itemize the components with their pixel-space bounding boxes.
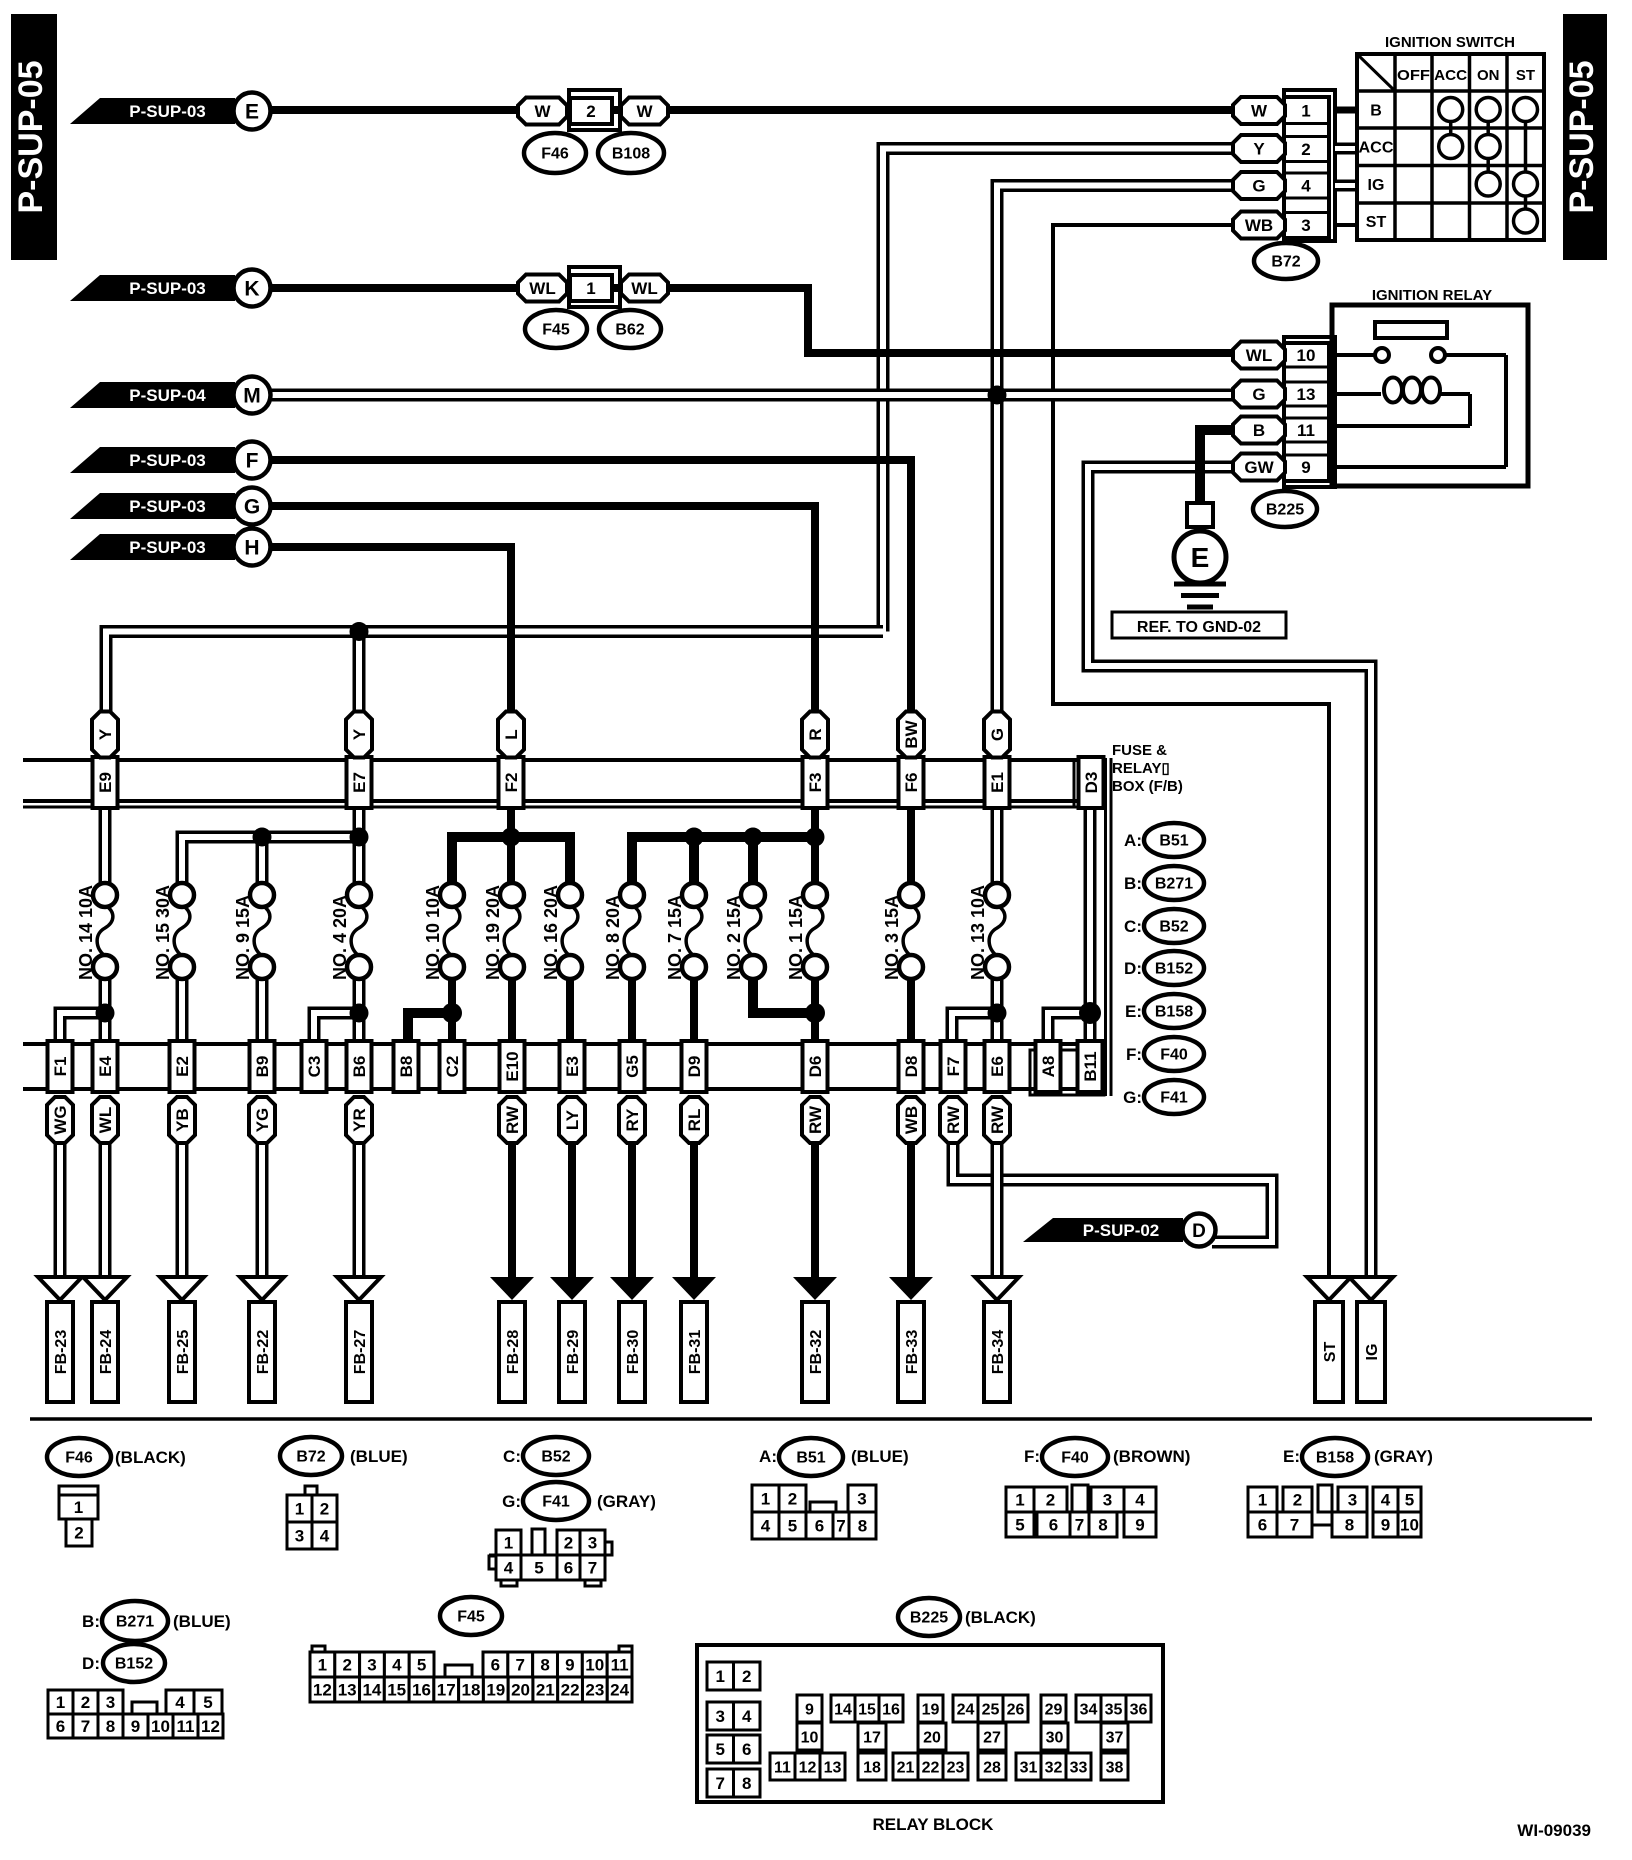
- svg-text:(BROWN): (BROWN): [1113, 1447, 1190, 1466]
- svg-text:1: 1: [504, 1533, 513, 1552]
- svg-text:B:: B:: [82, 1612, 100, 1631]
- svg-text:FB-33: FB-33: [904, 1330, 921, 1375]
- svg-text:1: 1: [74, 1498, 83, 1517]
- svg-text:YG: YG: [253, 1108, 272, 1133]
- svg-text:FB-27: FB-27: [352, 1330, 369, 1375]
- svg-text:FB-30: FB-30: [625, 1330, 642, 1375]
- svg-text:G:: G:: [1123, 1088, 1142, 1107]
- svg-text:(BLUE): (BLUE): [350, 1447, 408, 1466]
- svg-text:21: 21: [897, 1759, 915, 1776]
- svg-text:4: 4: [1381, 1490, 1391, 1509]
- svg-text:ST: ST: [1516, 67, 1535, 84]
- svg-text:K: K: [244, 278, 259, 301]
- svg-text:NO. 14 10A: NO. 14 10A: [76, 885, 96, 980]
- svg-text:M: M: [243, 385, 261, 408]
- svg-text:16: 16: [882, 1701, 900, 1718]
- svg-text:1: 1: [716, 1667, 725, 1686]
- svg-text:Y: Y: [1253, 140, 1265, 159]
- svg-text:F40: F40: [1160, 1047, 1188, 1064]
- svg-text:B225: B225: [910, 1610, 948, 1627]
- svg-text:3: 3: [716, 1707, 725, 1726]
- svg-text:YB: YB: [173, 1108, 192, 1132]
- svg-text:14: 14: [362, 1680, 381, 1699]
- svg-text:19: 19: [922, 1701, 940, 1718]
- svg-text:F:: F:: [1126, 1045, 1142, 1064]
- svg-text:B52: B52: [1159, 919, 1188, 936]
- svg-text:F46: F46: [541, 146, 569, 163]
- svg-text:B6: B6: [350, 1056, 369, 1078]
- svg-text:NO. 7 15A: NO. 7 15A: [665, 895, 685, 980]
- svg-text:7: 7: [81, 1717, 90, 1736]
- svg-text:IGNITION RELAY: IGNITION RELAY: [1372, 287, 1492, 304]
- svg-text:7: 7: [1075, 1515, 1084, 1534]
- svg-text:RW: RW: [806, 1105, 825, 1134]
- svg-text:R: R: [806, 728, 825, 740]
- svg-text:11: 11: [611, 1655, 629, 1674]
- svg-text:LY: LY: [563, 1109, 582, 1130]
- svg-text:10: 10: [1400, 1515, 1419, 1534]
- svg-text:1: 1: [1258, 1490, 1267, 1509]
- svg-text:6: 6: [491, 1655, 500, 1674]
- svg-text:NO. 9 15A: NO. 9 15A: [233, 895, 253, 980]
- svg-text:(GRAY): (GRAY): [1374, 1447, 1433, 1466]
- svg-text:B152: B152: [1155, 961, 1193, 978]
- svg-text:7: 7: [716, 1774, 725, 1793]
- svg-text:24: 24: [957, 1701, 975, 1718]
- svg-text:F3: F3: [806, 773, 825, 793]
- svg-text:B152: B152: [115, 1656, 153, 1673]
- svg-text:F41: F41: [1160, 1090, 1188, 1107]
- svg-text:B: B: [1253, 421, 1265, 440]
- svg-text:RW: RW: [503, 1105, 522, 1134]
- svg-text:RL: RL: [685, 1109, 704, 1132]
- svg-text:2: 2: [342, 1655, 351, 1674]
- svg-text:E: E: [245, 101, 259, 124]
- svg-text:38: 38: [1106, 1759, 1124, 1776]
- svg-text:B158: B158: [1155, 1004, 1193, 1021]
- svg-text:Y: Y: [96, 728, 115, 740]
- svg-text:4: 4: [1301, 177, 1311, 196]
- svg-text:D8: D8: [902, 1056, 921, 1078]
- svg-text:18: 18: [462, 1680, 481, 1699]
- svg-text:G: G: [988, 728, 1007, 741]
- svg-text:4: 4: [175, 1693, 185, 1712]
- svg-text:E:: E:: [1283, 1447, 1300, 1466]
- svg-text:Y: Y: [350, 728, 369, 740]
- svg-text:B8: B8: [397, 1056, 416, 1078]
- svg-text:2: 2: [1293, 1490, 1302, 1509]
- svg-text:2: 2: [81, 1693, 90, 1712]
- svg-text:2: 2: [1046, 1490, 1055, 1509]
- svg-text:RW: RW: [988, 1105, 1007, 1134]
- svg-text:(BLACK): (BLACK): [115, 1448, 186, 1467]
- svg-text:31: 31: [1020, 1759, 1038, 1776]
- svg-text:B: B: [1370, 103, 1382, 120]
- svg-text:1: 1: [1015, 1490, 1024, 1509]
- svg-text:20: 20: [511, 1680, 530, 1699]
- svg-text:FUSE &: FUSE &: [1112, 742, 1167, 759]
- svg-text:P-SUP-03: P-SUP-03: [129, 538, 206, 557]
- svg-text:6: 6: [1258, 1515, 1267, 1534]
- svg-text:6: 6: [564, 1558, 573, 1577]
- svg-text:P-SUP-03: P-SUP-03: [129, 497, 206, 516]
- svg-text:24: 24: [610, 1680, 629, 1699]
- svg-text:C2: C2: [443, 1056, 462, 1078]
- svg-text:WL: WL: [1246, 346, 1272, 365]
- svg-text:FB-31: FB-31: [687, 1330, 704, 1375]
- svg-text:B72: B72: [1271, 254, 1300, 271]
- svg-text:13: 13: [1297, 385, 1316, 404]
- svg-text:P-SUP-03: P-SUP-03: [129, 451, 206, 470]
- svg-text:8: 8: [742, 1774, 751, 1793]
- svg-text:F7: F7: [944, 1057, 963, 1077]
- svg-text:P-SUP-03: P-SUP-03: [129, 279, 206, 298]
- svg-text:NO. 16 20A: NO. 16 20A: [541, 885, 561, 980]
- svg-text:D6: D6: [806, 1056, 825, 1078]
- svg-text:1: 1: [761, 1489, 770, 1508]
- svg-text:WI-09039: WI-09039: [1517, 1821, 1591, 1840]
- svg-text:22: 22: [561, 1680, 580, 1699]
- svg-text:21: 21: [536, 1680, 555, 1699]
- svg-text:G: G: [1252, 177, 1265, 196]
- svg-text:8: 8: [1345, 1515, 1354, 1534]
- svg-text:C:: C:: [1124, 917, 1142, 936]
- svg-text:5: 5: [203, 1693, 212, 1712]
- svg-text:D3: D3: [1082, 772, 1101, 794]
- svg-text:5: 5: [788, 1516, 797, 1535]
- svg-text:4: 4: [504, 1558, 514, 1577]
- svg-text:A:: A:: [1124, 831, 1142, 850]
- svg-text:9: 9: [131, 1717, 140, 1736]
- svg-text:YR: YR: [350, 1108, 369, 1132]
- svg-text:2: 2: [74, 1523, 83, 1542]
- svg-text:G:: G:: [502, 1492, 521, 1511]
- svg-text:E4: E4: [96, 1056, 115, 1077]
- svg-text:13: 13: [338, 1680, 357, 1699]
- svg-text:E2: E2: [173, 1056, 192, 1077]
- svg-text:23: 23: [585, 1680, 604, 1699]
- svg-text:IGNITION SWITCH: IGNITION SWITCH: [1385, 34, 1515, 51]
- svg-text:2: 2: [742, 1667, 751, 1686]
- svg-text:7: 7: [1290, 1515, 1299, 1534]
- svg-text:E6: E6: [988, 1056, 1007, 1077]
- svg-text:1: 1: [1301, 102, 1310, 121]
- svg-text:11: 11: [774, 1759, 791, 1776]
- svg-text:E: E: [1191, 542, 1210, 573]
- svg-text:9: 9: [1135, 1515, 1144, 1534]
- svg-text:P-SUP-03: P-SUP-03: [129, 102, 206, 121]
- svg-text:10: 10: [801, 1729, 819, 1746]
- svg-text:1: 1: [56, 1693, 65, 1712]
- svg-text:3: 3: [367, 1655, 376, 1674]
- svg-text:C:: C:: [503, 1447, 521, 1466]
- svg-text:D: D: [1192, 1221, 1206, 1242]
- svg-text:FB-29: FB-29: [565, 1330, 582, 1375]
- svg-text:NO. 2 15A: NO. 2 15A: [724, 895, 744, 980]
- svg-text:L: L: [502, 729, 521, 739]
- svg-text:10: 10: [151, 1717, 170, 1736]
- svg-text:GW: GW: [1244, 458, 1274, 477]
- svg-text:10: 10: [1297, 346, 1316, 365]
- svg-text:12: 12: [313, 1680, 332, 1699]
- svg-text:5: 5: [1405, 1490, 1414, 1509]
- svg-text:4: 4: [320, 1526, 330, 1545]
- svg-text:2: 2: [1301, 140, 1310, 159]
- svg-text:15: 15: [387, 1680, 406, 1699]
- svg-text:36: 36: [1130, 1701, 1148, 1718]
- svg-text:NO. 3 15A: NO. 3 15A: [882, 895, 902, 980]
- svg-text:12: 12: [799, 1759, 817, 1776]
- svg-text:W: W: [1251, 102, 1268, 121]
- svg-text:P-SUP-05: P-SUP-05: [12, 60, 50, 213]
- svg-text:FB-24: FB-24: [98, 1330, 115, 1375]
- svg-text:2: 2: [564, 1533, 573, 1552]
- svg-text:RW: RW: [944, 1105, 963, 1134]
- svg-text:1: 1: [318, 1655, 327, 1674]
- svg-text:3: 3: [295, 1526, 304, 1545]
- svg-text:4: 4: [1135, 1490, 1145, 1509]
- svg-text:WG: WG: [51, 1105, 70, 1134]
- svg-text:12: 12: [201, 1717, 220, 1736]
- svg-text:FB-32: FB-32: [808, 1330, 825, 1375]
- svg-text:NO. 1 15A: NO. 1 15A: [786, 895, 806, 980]
- svg-text:3: 3: [106, 1693, 115, 1712]
- svg-text:E:: E:: [1125, 1002, 1142, 1021]
- svg-text:ST: ST: [1322, 1342, 1339, 1363]
- svg-text:E7: E7: [350, 772, 369, 793]
- svg-text:F40: F40: [1061, 1450, 1089, 1467]
- svg-text:4: 4: [761, 1516, 771, 1535]
- svg-text:3: 3: [588, 1533, 597, 1552]
- svg-text:F45: F45: [542, 322, 570, 339]
- svg-text:B158: B158: [1316, 1450, 1354, 1467]
- svg-text:RELAY▯: RELAY▯: [1112, 760, 1170, 777]
- svg-text:9: 9: [805, 1701, 814, 1718]
- svg-text:W: W: [534, 102, 551, 121]
- svg-text:5: 5: [1015, 1515, 1024, 1534]
- svg-text:F1: F1: [51, 1057, 70, 1077]
- svg-text:B271: B271: [1155, 876, 1193, 893]
- svg-text:IG: IG: [1364, 1344, 1381, 1361]
- svg-text:5: 5: [417, 1655, 426, 1674]
- svg-text:IG: IG: [1368, 177, 1385, 194]
- svg-text:32: 32: [1045, 1759, 1063, 1776]
- svg-text:FB-28: FB-28: [505, 1330, 522, 1375]
- svg-text:B51: B51: [1159, 833, 1188, 850]
- svg-text:11: 11: [177, 1717, 195, 1736]
- svg-text:6: 6: [56, 1717, 65, 1736]
- svg-text:35: 35: [1105, 1701, 1123, 1718]
- svg-text:(GRAY): (GRAY): [597, 1492, 656, 1511]
- svg-text:G: G: [1252, 385, 1265, 404]
- svg-text:1: 1: [295, 1499, 304, 1518]
- svg-text:W: W: [636, 102, 653, 121]
- svg-text:6: 6: [742, 1740, 751, 1759]
- svg-text:9: 9: [1381, 1515, 1390, 1534]
- svg-text:P-SUP-05: P-SUP-05: [1563, 60, 1601, 213]
- svg-text:1: 1: [586, 279, 595, 298]
- svg-text:13: 13: [824, 1759, 842, 1776]
- svg-text:11: 11: [1297, 421, 1315, 440]
- svg-text:OFF: OFF: [1397, 67, 1430, 84]
- svg-text:14: 14: [834, 1701, 852, 1718]
- svg-text:7: 7: [516, 1655, 525, 1674]
- svg-text:16: 16: [412, 1680, 431, 1699]
- svg-text:4: 4: [392, 1655, 402, 1674]
- svg-text:17: 17: [437, 1680, 456, 1699]
- svg-text:B108: B108: [612, 146, 650, 163]
- svg-text:19: 19: [486, 1680, 505, 1699]
- svg-text:8: 8: [858, 1516, 867, 1535]
- svg-text:E3: E3: [563, 1056, 582, 1077]
- svg-text:F46: F46: [65, 1450, 93, 1467]
- svg-text:WL: WL: [529, 279, 555, 298]
- svg-text:8: 8: [1098, 1515, 1107, 1534]
- svg-text:3: 3: [1348, 1490, 1357, 1509]
- svg-text:(BLUE): (BLUE): [173, 1612, 231, 1631]
- svg-text:RY: RY: [623, 1108, 642, 1132]
- svg-text:17: 17: [863, 1729, 881, 1746]
- svg-text:15: 15: [858, 1701, 876, 1718]
- svg-text:34: 34: [1080, 1701, 1098, 1718]
- svg-text:2: 2: [320, 1499, 329, 1518]
- svg-text:E9: E9: [96, 772, 115, 793]
- svg-text:6: 6: [1049, 1515, 1058, 1534]
- svg-text:B52: B52: [541, 1449, 570, 1466]
- svg-text:G: G: [244, 496, 260, 519]
- svg-text:7: 7: [588, 1558, 597, 1577]
- svg-text:FB-34: FB-34: [990, 1330, 1007, 1375]
- svg-text:P-SUP-02: P-SUP-02: [1083, 1221, 1160, 1240]
- svg-text:(BLACK): (BLACK): [965, 1608, 1036, 1627]
- svg-text:B72: B72: [296, 1449, 325, 1466]
- svg-text:26: 26: [1007, 1701, 1025, 1718]
- svg-text:A:: A:: [759, 1447, 777, 1466]
- svg-text:B51: B51: [796, 1450, 825, 1467]
- svg-text:B271: B271: [116, 1614, 154, 1631]
- svg-text:BOX (F/B): BOX (F/B): [1112, 778, 1183, 795]
- svg-text:37: 37: [1106, 1729, 1124, 1746]
- svg-text:WB: WB: [902, 1106, 921, 1134]
- svg-text:F41: F41: [542, 1494, 570, 1511]
- svg-text:8: 8: [106, 1717, 115, 1736]
- svg-text:NO. 8 20A: NO. 8 20A: [603, 895, 623, 980]
- svg-text:F45: F45: [457, 1609, 485, 1626]
- svg-text:(BLUE): (BLUE): [851, 1447, 909, 1466]
- svg-text:NO. 19 20A: NO. 19 20A: [483, 885, 503, 980]
- svg-text:H: H: [244, 537, 259, 560]
- svg-text:F:: F:: [1024, 1447, 1040, 1466]
- svg-text:18: 18: [863, 1759, 881, 1776]
- svg-text:ACC: ACC: [1434, 67, 1467, 84]
- svg-text:27: 27: [983, 1729, 1001, 1746]
- svg-text:D9: D9: [685, 1056, 704, 1078]
- svg-text:A8: A8: [1039, 1056, 1058, 1078]
- svg-text:3: 3: [1301, 216, 1310, 235]
- svg-text:23: 23: [947, 1759, 965, 1776]
- svg-text:2: 2: [788, 1489, 797, 1508]
- svg-text:F6: F6: [902, 773, 921, 793]
- svg-text:G5: G5: [623, 1055, 642, 1078]
- svg-text:6: 6: [815, 1516, 824, 1535]
- svg-text:B:: B:: [1124, 874, 1142, 893]
- svg-text:ST: ST: [1366, 214, 1387, 231]
- svg-text:F: F: [246, 450, 259, 473]
- svg-text:E1: E1: [988, 772, 1007, 793]
- svg-text:WB: WB: [1245, 216, 1273, 235]
- svg-text:D:: D:: [1124, 959, 1142, 978]
- svg-text:B225: B225: [1266, 502, 1304, 519]
- svg-text:FB-25: FB-25: [175, 1330, 192, 1375]
- svg-text:P-SUP-04: P-SUP-04: [129, 386, 206, 405]
- svg-text:8: 8: [540, 1655, 549, 1674]
- svg-text:3: 3: [1103, 1490, 1112, 1509]
- svg-text:D:: D:: [82, 1654, 100, 1673]
- svg-text:B9: B9: [253, 1056, 272, 1078]
- svg-text:7: 7: [836, 1516, 845, 1535]
- svg-text:33: 33: [1070, 1759, 1088, 1776]
- svg-text:10: 10: [585, 1655, 604, 1674]
- svg-text:REF. TO GND-02: REF. TO GND-02: [1137, 619, 1261, 636]
- svg-text:B62: B62: [615, 322, 644, 339]
- svg-text:28: 28: [983, 1759, 1001, 1776]
- svg-text:5: 5: [534, 1558, 543, 1577]
- svg-text:20: 20: [923, 1729, 941, 1746]
- svg-text:5: 5: [716, 1740, 725, 1759]
- svg-text:RELAY BLOCK: RELAY BLOCK: [873, 1815, 995, 1834]
- svg-text:22: 22: [922, 1759, 940, 1776]
- svg-text:3: 3: [857, 1489, 866, 1508]
- svg-text:C3: C3: [305, 1056, 324, 1078]
- svg-text:WL: WL: [96, 1107, 115, 1133]
- svg-text:NO. 13 10A: NO. 13 10A: [968, 885, 988, 980]
- svg-text:E10: E10: [503, 1051, 522, 1081]
- svg-text:BW: BW: [902, 719, 921, 748]
- svg-text:FB-22: FB-22: [255, 1330, 272, 1375]
- svg-text:4: 4: [742, 1707, 752, 1726]
- svg-text:29: 29: [1045, 1701, 1063, 1718]
- svg-text:NO. 4 20A: NO. 4 20A: [330, 895, 350, 980]
- svg-text:FB-23: FB-23: [53, 1330, 70, 1375]
- svg-text:25: 25: [982, 1701, 1000, 1718]
- svg-text:WL: WL: [631, 279, 657, 298]
- svg-text:2: 2: [586, 102, 595, 121]
- svg-text:NO. 15 30A: NO. 15 30A: [153, 885, 173, 980]
- svg-text:NO. 10 10A: NO. 10 10A: [423, 885, 443, 980]
- svg-text:F2: F2: [502, 773, 521, 793]
- svg-text:9: 9: [1301, 458, 1310, 477]
- svg-text:B11: B11: [1081, 1051, 1100, 1081]
- svg-text:ACC: ACC: [1359, 140, 1394, 157]
- svg-text:30: 30: [1046, 1729, 1064, 1746]
- svg-text:ON: ON: [1477, 67, 1500, 84]
- svg-text:9: 9: [565, 1655, 574, 1674]
